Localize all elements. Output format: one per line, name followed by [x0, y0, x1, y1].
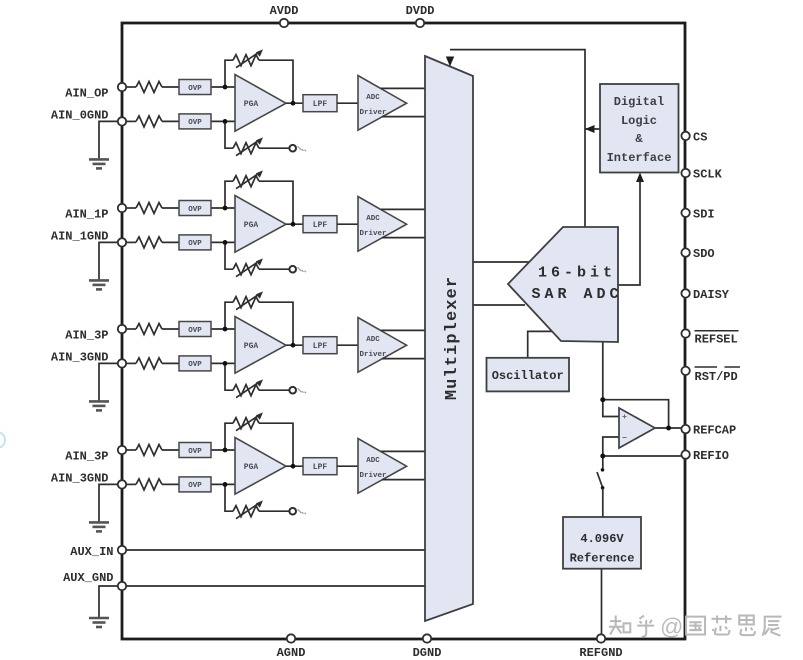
pin SCLK — [681, 169, 689, 177]
op-amp ADC Driver ch1 — [358, 76, 407, 131]
svg-text:REFIO: REFIO — [693, 449, 729, 463]
OVP block ch2 (GND line) — [179, 235, 211, 250]
svg-text:OVP: OVP — [188, 482, 202, 490]
node ch2 PGA + input junction — [223, 206, 228, 211]
OVP block ch1 (P line) — [179, 80, 211, 95]
LPF block ch1 — [303, 95, 337, 112]
wire ch2 resistor to OVP (P line) — [162, 207, 179, 209]
OVP block ch3 (P line) — [179, 322, 211, 337]
wire ch2 PGA output to LPF — [286, 223, 303, 225]
svg-text:OVP: OVP — [188, 327, 202, 335]
op-amp PGA ch4 — [235, 438, 286, 495]
wire ch2 common-mode branch down — [225, 242, 289, 269]
svg-text:AIN_3P: AIN_3P — [65, 329, 108, 343]
resistor ch4 series input (GND line) — [136, 479, 162, 490]
switch between REFIO node and internal reference — [602, 456, 604, 468]
wire ch4 resistor to OVP (P line) — [162, 449, 179, 451]
ground symbol ch4 input ground — [99, 484, 122, 521]
LPF block ch4 — [303, 458, 337, 475]
LPF block ch2 — [303, 216, 337, 233]
pin DGND — [423, 634, 431, 642]
pin DAISY — [681, 289, 689, 297]
terminal node ch2 common-mode test point — [289, 266, 296, 273]
svg-text:AIN_3GND: AIN_3GND — [51, 471, 109, 485]
resistor ch1 series input (GND line) — [136, 116, 162, 127]
wire buffer feedback loop — [603, 400, 669, 428]
op-amp ADC Driver ch4 — [358, 439, 407, 494]
arrow of variable feedback resistor ch4 — [236, 415, 259, 431]
resistor ch1 programmable gain feedback (variable) — [233, 55, 259, 66]
wire reference block to REFGND pin — [601, 569, 603, 639]
terminal node ch3 common-mode test point — [289, 387, 296, 394]
svg-text:LPF: LPF — [313, 342, 328, 351]
arrow of variable feedback resistor ch3 — [236, 294, 259, 310]
svg-text:AGND: AGND — [277, 646, 306, 660]
svg-text:REFGND: REFGND — [579, 646, 622, 660]
pin AIN_3P ch4 — [118, 446, 126, 454]
svg-text:SAR ADC: SAR ADC — [531, 286, 622, 303]
pin AUX_GND — [118, 582, 126, 590]
wire ch4 LPF to ADC driver — [337, 465, 359, 467]
pin AIN_OP ch1 — [118, 83, 126, 91]
arrow of variable common-mode resistor ch3 — [236, 382, 259, 398]
wire ch1 P input from pin to series resistor — [122, 86, 136, 88]
svg-text:@: @ — [660, 614, 683, 640]
terminal node ch1 common-mode test point — [289, 145, 296, 152]
arrowhead into multiplexer select input — [446, 57, 454, 67]
4.096V reference block — [563, 517, 641, 569]
wire ch2 driver differential output top to multiplexer — [381, 208, 430, 210]
resistor ch2 programmable gain feedback (variable) — [233, 176, 259, 187]
svg-text:REFCAP: REFCAP — [693, 424, 736, 438]
svg-text:Oscillator: Oscillator — [492, 369, 564, 383]
wire ch4 resistor to OVP (GND line) — [162, 483, 179, 485]
svg-text:&: & — [635, 132, 643, 146]
wire ch4 common-mode branch down — [225, 484, 289, 511]
wire ch2 P input from pin to series resistor — [122, 207, 136, 209]
LPF block ch3 — [303, 337, 337, 354]
node ch2 PGA output junction — [291, 222, 296, 227]
svg-text:AIN_1P: AIN_1P — [65, 208, 108, 222]
wire ch3 OVP to PGA + input — [211, 328, 237, 330]
svg-text:LPF: LPF — [313, 463, 328, 472]
wire REFIO line — [603, 455, 686, 457]
multiplexer block — [425, 56, 473, 621]
wire mux outputs to SAR ADC (top) — [468, 261, 532, 263]
ground symbol ch3 input ground — [99, 363, 122, 400]
wire ch3 GND input from pin to series resistor — [122, 362, 136, 364]
wire buffer - input — [603, 437, 621, 456]
wire ch1 resistor to OVP (P line) — [162, 86, 179, 88]
node buffer input junction — [600, 397, 605, 402]
node ch4 PGA output junction — [291, 464, 296, 469]
wire ch3 common-mode branch down — [225, 363, 289, 390]
wire ch1 LPF to ADC driver — [337, 102, 359, 104]
wire ch3 OVP to PGA - input — [211, 362, 237, 364]
svg-text:AUX_IN: AUX_IN — [70, 545, 113, 559]
svg-text:16-bit: 16-bit — [538, 265, 616, 282]
svg-text:CS: CS — [693, 130, 707, 144]
wire ch1 OVP to PGA + input — [211, 86, 237, 88]
svg-text:PGA: PGA — [244, 463, 259, 472]
16-bit SAR ADC block — [508, 227, 623, 342]
pin REFSEL (active low) — [681, 329, 689, 337]
node ch4 PGA - input junction — [223, 482, 228, 487]
resistor ch2 common-mode (variable) — [233, 264, 259, 275]
pin AIN_3P ch3 — [118, 325, 126, 333]
svg-text:ADC: ADC — [366, 457, 380, 465]
pin REFIO — [681, 450, 689, 458]
pin AUX_IN — [118, 546, 126, 554]
svg-text:OVP: OVP — [188, 119, 202, 127]
svg-text:DAISY: DAISY — [693, 288, 730, 302]
arrowhead SAR data into digital logic — [636, 173, 644, 183]
arrow of variable common-mode resistor ch2 — [236, 261, 259, 277]
wire ch4 driver differential output bottom to multiplexer — [382, 479, 430, 481]
svg-text:REFSEL: REFSEL — [695, 333, 738, 347]
svg-text:OVP: OVP — [188, 206, 202, 214]
OVP block ch3 (GND line) — [179, 356, 211, 371]
wire SAR ADC reference node down to buffer — [603, 341, 621, 417]
wire ch4 feedback branch up and across — [225, 423, 293, 466]
wire mux select from digital logic: top run and vertical control bus — [450, 50, 600, 230]
OVP block ch2 (P line) — [179, 201, 211, 216]
svg-text:AIN_3GND: AIN_3GND — [51, 350, 109, 364]
OVP block ch1 (GND line) — [179, 114, 211, 129]
pin AIN_3GND ch4 — [118, 480, 126, 488]
svg-text:Logic: Logic — [621, 114, 657, 128]
pin RST/PD (active low) — [681, 367, 689, 375]
pin CS — [681, 132, 689, 140]
op-amp PGA ch2 — [235, 196, 286, 253]
arrow of variable feedback resistor ch2 — [236, 173, 259, 189]
node ch1 PGA output junction — [291, 101, 296, 106]
resistor ch2 series input (GND line) — [136, 237, 162, 248]
arrow of variable common-mode resistor ch1 — [236, 140, 259, 156]
pin AIN_0GND ch1 — [118, 117, 126, 125]
wire ch2 driver differential output bottom to multiplexer — [382, 237, 430, 239]
OVP block ch4 (P line) — [179, 443, 211, 458]
resistor ch3 series input (P line) — [136, 324, 162, 335]
svg-text:Interface: Interface — [607, 151, 672, 165]
wire ch1 GND input from pin to series resistor — [122, 120, 136, 122]
wire ch3 resistor to OVP (GND line) — [162, 362, 179, 364]
svg-text:AVDD: AVDD — [270, 4, 299, 18]
svg-text:AIN_OP: AIN_OP — [65, 87, 108, 101]
svg-text:4.096V: 4.096V — [580, 532, 624, 546]
pin AIN_3GND ch3 — [118, 359, 126, 367]
pin AVDD — [280, 19, 288, 27]
wire ch3 PGA output to LPF — [286, 344, 303, 346]
wire ch3 driver differential output bottom to multiplexer — [382, 358, 430, 360]
node ch1 PGA + input junction — [223, 85, 228, 90]
wire ch4 P input from pin to series resistor — [122, 449, 136, 451]
svg-text:OVP: OVP — [188, 448, 202, 456]
svg-text:PGA: PGA — [244, 221, 259, 230]
wire ch1 common-mode branch down — [225, 121, 289, 148]
svg-text:OVP: OVP — [188, 361, 202, 369]
resistor ch3 series input (GND line) — [136, 358, 162, 369]
wire SAR ADC data to digital logic — [618, 177, 640, 285]
wire ch2 feedback branch up and across — [225, 181, 293, 224]
node REFIO junction — [600, 454, 605, 459]
wire ch3 resistor to OVP (P line) — [162, 328, 179, 330]
node buffer output junction — [666, 426, 671, 431]
wire buffer output to REFCAP pin — [653, 427, 686, 429]
wire mux outputs to SAR ADC (bottom) — [468, 304, 525, 306]
svg-text:Digital: Digital — [614, 95, 664, 109]
pin REFCAP — [681, 425, 689, 433]
ground symbol ch1 input ground — [99, 121, 122, 158]
resistor ch1 common-mode (variable) — [233, 143, 259, 154]
wire ch2 OVP to PGA + input — [211, 207, 237, 209]
svg-text:AIN_0GND: AIN_0GND — [51, 108, 109, 122]
resistor ch3 programmable gain feedback (variable) — [233, 297, 259, 308]
svg-text:SDO: SDO — [693, 247, 715, 261]
wire AUX_IN to multiplexer — [122, 549, 430, 551]
wire ch1 PGA output to LPF — [286, 102, 303, 104]
pin AIN_1GND ch2 — [118, 238, 126, 246]
op-amp PGA ch3 — [235, 317, 286, 374]
wire oscillator to SAR ADC — [528, 331, 556, 358]
wire ch2 resistor to OVP (GND line) — [162, 241, 179, 243]
svg-text:OVP: OVP — [188, 85, 202, 93]
wire ch2 LPF to ADC driver — [337, 223, 359, 225]
svg-text:RST/PD: RST/PD — [695, 370, 738, 384]
chip outline border — [122, 23, 685, 639]
resistor ch4 programmable gain feedback (variable) — [233, 418, 259, 429]
resistor ch4 common-mode (variable) — [233, 506, 259, 517]
svg-text:SDI: SDI — [693, 207, 715, 221]
wire ch1 driver differential output top to multiplexer — [381, 87, 430, 89]
svg-text:OVP: OVP — [188, 240, 202, 248]
op-amp reference buffer — [619, 408, 655, 448]
svg-text:AIN_1GND: AIN_1GND — [51, 229, 109, 243]
svg-text:LPF: LPF — [313, 100, 328, 109]
svg-text:ADC: ADC — [366, 94, 380, 102]
svg-text:Multiplexer: Multiplexer — [443, 276, 462, 400]
svg-text:DVDD: DVDD — [406, 4, 435, 18]
arrow of variable feedback resistor ch1 — [236, 52, 259, 67]
wire ch3 P input from pin to series resistor — [122, 328, 136, 330]
watermark fragment arc at left edge — [0, 432, 5, 448]
svg-text:LPF: LPF — [313, 221, 328, 230]
wire ch3 driver differential output top to multiplexer — [381, 329, 430, 331]
svg-text:Reference: Reference — [570, 552, 635, 566]
op-amp ADC Driver ch3 — [358, 318, 407, 373]
resistor ch4 series input (P line) — [136, 445, 162, 456]
svg-text:AUX_GND: AUX_GND — [63, 571, 113, 585]
svg-text:PGA: PGA — [244, 100, 259, 109]
OVP block ch4 (GND line) — [179, 477, 211, 492]
ground symbol AUX_GND — [99, 586, 122, 617]
arrowhead from digital logic into control bus — [585, 125, 595, 133]
wire ch4 OVP to PGA + input — [211, 449, 237, 451]
op-amp PGA ch1 — [235, 75, 286, 132]
node ch1 PGA - input junction — [223, 119, 228, 124]
svg-text:PGA: PGA — [244, 342, 259, 351]
oscillator block — [487, 358, 570, 392]
resistor ch2 series input (P line) — [136, 203, 162, 214]
wire ch1 driver differential output bottom to multiplexer — [382, 116, 430, 118]
pin SDI — [681, 209, 689, 217]
node ch4 PGA + input junction — [223, 448, 228, 453]
wire ch3 LPF to ADC driver — [337, 344, 359, 346]
pin SDO — [681, 248, 689, 256]
wire ch4 PGA output to LPF — [286, 465, 303, 467]
arrow of variable common-mode resistor ch4 — [236, 503, 259, 519]
pin AIN_1P ch2 — [118, 204, 126, 212]
svg-text:ADC: ADC — [366, 336, 380, 344]
pin REFGND — [597, 634, 605, 642]
wire ch3 feedback branch up and across — [225, 302, 293, 345]
svg-text:SCLK: SCLK — [693, 168, 723, 182]
wire ch1 OVP to PGA - input — [211, 120, 237, 122]
watermark text 知乎 @国芯思辰 (drawn strokes) — [609, 614, 782, 640]
svg-text:ADC: ADC — [366, 215, 380, 223]
ground symbol ch2 input ground — [99, 242, 122, 279]
node ch3 PGA + input junction — [223, 327, 228, 332]
wire ch2 GND input from pin to series resistor — [122, 241, 136, 243]
wire ch4 driver differential output top to multiplexer — [381, 450, 430, 452]
svg-text:AIN_3P: AIN_3P — [65, 450, 108, 464]
wire ch1 resistor to OVP (GND line) — [162, 120, 179, 122]
wire ch4 OVP to PGA - input — [211, 483, 237, 485]
node ch3 PGA - input junction — [223, 361, 228, 366]
pin DVDD — [416, 19, 424, 27]
op-amp ADC Driver ch2 — [358, 197, 407, 252]
digital logic and interface block U-DL — [600, 84, 679, 173]
node ch2 PGA - input junction — [223, 240, 228, 245]
wire ch1 feedback branch up and across — [225, 60, 293, 103]
node ch3 PGA output junction — [291, 343, 296, 348]
pin AGND — [287, 634, 295, 642]
svg-text:DGND: DGND — [413, 646, 442, 660]
wire ch4 GND input from pin to series resistor — [122, 483, 136, 485]
wire AUX_GND to multiplexer — [122, 585, 430, 587]
resistor ch3 common-mode (variable) — [233, 385, 259, 396]
terminal node ch4 common-mode test point — [289, 508, 296, 515]
wire ch2 OVP to PGA - input — [211, 241, 237, 243]
resistor ch1 series input (P line) — [136, 82, 162, 93]
